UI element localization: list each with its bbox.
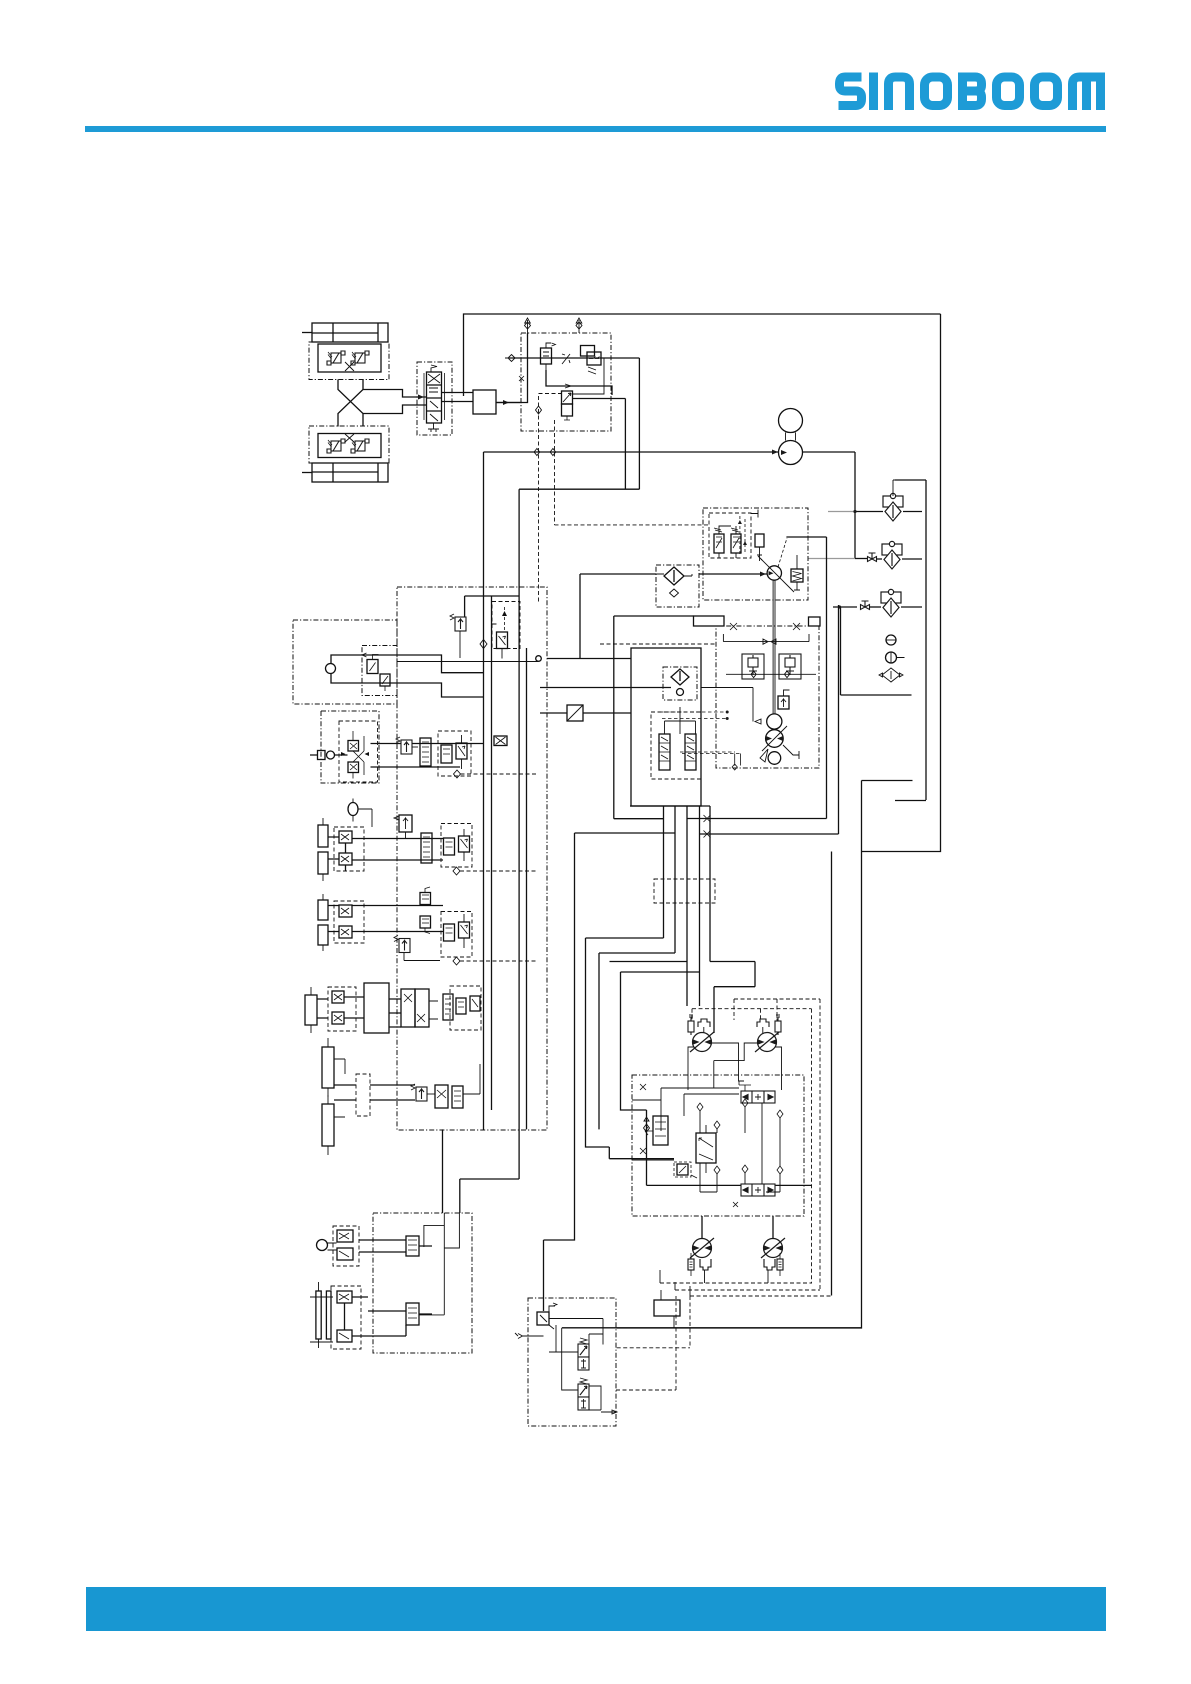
gate valve GV2 bbox=[861, 601, 870, 610]
jib wires L4 bbox=[328, 906, 443, 932]
drive valve DV1 pilot rails bbox=[424, 373, 445, 420]
crossover X1 bbox=[345, 362, 354, 371]
wire x861 vertical bbox=[617, 781, 913, 1329]
jib cyl L4 rods bbox=[318, 900, 328, 920]
pilot line dashed down A bbox=[538, 396, 540, 602]
strainer header bbox=[665, 707, 696, 734]
compensator valve CP1 bbox=[714, 534, 724, 553]
suction filter F4 box bbox=[663, 667, 697, 700]
wire top long line bbox=[464, 314, 941, 396]
wire DM feed bbox=[710, 962, 755, 1034]
solenoid valve SV1 bbox=[562, 391, 573, 404]
reducing valve RV1 bbox=[541, 348, 552, 364]
swing brake cyl bbox=[316, 1291, 321, 1339]
axle lock valves bbox=[348, 741, 359, 752]
pilot diamond bbox=[536, 406, 542, 414]
wire suction line bbox=[540, 687, 671, 689]
cylinder CY2 rod bbox=[302, 472, 312, 474]
platform wires L3 bbox=[328, 837, 443, 871]
wire return left A bbox=[614, 616, 694, 819]
arrow into valve bbox=[418, 395, 424, 400]
gauge G1 bbox=[886, 635, 896, 645]
header rule bbox=[85, 126, 1106, 132]
platform level gauge bbox=[348, 803, 358, 816]
brake solenoid BS2 bbox=[578, 1378, 589, 1410]
letter O bbox=[1035, 77, 1058, 106]
steer wires bbox=[331, 655, 484, 697]
wire to drive valve upper bbox=[363, 390, 427, 398]
PV inlet diamond bbox=[505, 355, 515, 362]
solenoid pilot dash bbox=[539, 393, 562, 395]
brake solenoid BS1 bbox=[578, 1338, 589, 1370]
relief TR1 bbox=[674, 1162, 691, 1177]
drive valve DV1 enclosure bbox=[417, 362, 452, 435]
pilot diamonds on pump line bbox=[534, 449, 556, 456]
drive motor DM3 bbox=[690, 1238, 714, 1258]
valve M2 bbox=[497, 632, 508, 649]
PV internal wire bbox=[546, 370, 612, 395]
cartridge C2 bbox=[775, 1015, 781, 1035]
accumulator block A bbox=[694, 616, 725, 626]
wire TP1 bbox=[540, 712, 631, 714]
return manifold five verticals bbox=[586, 806, 664, 938]
jib diamond bbox=[453, 957, 460, 965]
jib check B bbox=[420, 916, 431, 928]
pump shaft bbox=[773, 580, 775, 713]
PG check header bbox=[723, 634, 809, 644]
drive valve DV1 drain bbox=[428, 423, 439, 432]
brake relief BR1 bbox=[537, 1312, 549, 1325]
pump outlet wire bbox=[803, 452, 856, 559]
jib check A bbox=[420, 893, 431, 905]
wire return left D bbox=[598, 953, 600, 1129]
crossover X2 bbox=[345, 434, 354, 442]
motor circle MC1 bbox=[779, 409, 803, 433]
compensator sub-box bbox=[709, 513, 751, 558]
SINOBOOM logo bbox=[839, 73, 1101, 111]
main manifold enclosure MF bbox=[397, 587, 547, 1130]
valve M6 right box bbox=[450, 986, 481, 1030]
TM internal wires bbox=[661, 1088, 780, 1192]
wire pump drain B bbox=[700, 605, 839, 834]
steer sub-box bbox=[362, 646, 397, 696]
lift cyl L6a bbox=[322, 1047, 334, 1088]
swash actuator bbox=[755, 534, 764, 547]
filter F1 bbox=[883, 493, 903, 521]
cartridge C4 bbox=[777, 1259, 783, 1270]
platform stack bbox=[421, 833, 432, 863]
wire M1 feed bbox=[465, 596, 519, 617]
platform valve pair box bbox=[441, 824, 472, 868]
throttle arrow TH1 bbox=[562, 354, 570, 364]
brake wires bbox=[549, 1319, 603, 1353]
junction block K bbox=[654, 1300, 680, 1316]
pump PC2 variable bbox=[766, 730, 784, 748]
wire SV1 right then down bbox=[573, 399, 626, 490]
MP relief bbox=[791, 569, 803, 582]
valve M7b stack bbox=[452, 1086, 463, 1108]
telescope wires bbox=[317, 997, 401, 1027]
wire return left E bbox=[610, 961, 688, 963]
wire x926 bottom elbow bbox=[895, 800, 926, 802]
wire swing feeds bbox=[443, 1129, 520, 1213]
axle lock port bbox=[318, 751, 326, 760]
bus vertical pair bbox=[484, 452, 492, 1130]
PV left internal vertical bbox=[497, 333, 528, 403]
pump group enclosure PG bbox=[716, 626, 819, 768]
TM diamonds bbox=[697, 1099, 783, 1174]
valve M5b box bbox=[441, 912, 472, 958]
cartridge C3 bbox=[688, 1259, 694, 1270]
cartridge C1 bbox=[688, 1015, 694, 1035]
swing motor SM2 box bbox=[331, 1286, 361, 1349]
suction filter F4 bbox=[671, 669, 689, 685]
steer valve bbox=[367, 660, 378, 674]
relief M7 bbox=[411, 1084, 427, 1101]
jib relief cluster M4 bbox=[396, 737, 412, 754]
swing gauge bbox=[317, 1240, 328, 1251]
valve M4b box bbox=[438, 731, 471, 776]
gallery M3 bbox=[547, 658, 631, 660]
check on drop bbox=[644, 1117, 650, 1132]
return filter F4a box bbox=[656, 565, 699, 607]
PV main gallery bbox=[509, 358, 639, 489]
wire grey to filter F1 bbox=[828, 511, 855, 513]
filter F2 bbox=[882, 541, 902, 569]
letter O bbox=[925, 77, 948, 106]
pressure line into manifold bbox=[397, 661, 538, 663]
wire F2 feed grey bbox=[808, 558, 855, 560]
wire bus collector bbox=[519, 489, 639, 1179]
main control manifold enclosure PV bbox=[521, 333, 611, 431]
swing valve V3 bbox=[406, 1236, 419, 1256]
swing valve V4 bbox=[406, 1303, 419, 1325]
wire DV1 to junction block bbox=[442, 393, 474, 402]
drive motor DM1 bbox=[690, 1032, 714, 1052]
jib valve box L4 bbox=[334, 901, 364, 943]
wire to drive valve lower bbox=[363, 405, 427, 414]
drive valve DV1 spring bbox=[431, 365, 437, 372]
main pump enclosure MP bbox=[703, 508, 808, 600]
valve M2 sub-box bbox=[492, 602, 520, 649]
cylinder CY2 barrel bbox=[312, 463, 388, 482]
pump PC3 charge bbox=[768, 752, 781, 765]
shuttle SH1 bbox=[741, 1091, 775, 1103]
swing internal verticals bbox=[419, 1213, 459, 1315]
wires DM down bbox=[688, 1047, 782, 1090]
wire return left B bbox=[575, 832, 676, 834]
bus diamond bbox=[480, 640, 487, 649]
tophat T3 draw bbox=[700, 1259, 711, 1270]
brake drain bbox=[601, 1410, 617, 1414]
PG top junction crosses bbox=[730, 623, 800, 630]
axle lock inner box bbox=[339, 721, 378, 782]
wire return left F bbox=[621, 972, 813, 1185]
drive pilot dashed rails bbox=[692, 999, 820, 1009]
main pump circle bbox=[767, 566, 781, 580]
strainer S2 bbox=[685, 734, 696, 770]
junction cross B bbox=[704, 831, 711, 838]
wires DM lower up bbox=[702, 1216, 773, 1239]
junction cross A bbox=[704, 815, 711, 822]
junction block X1 bbox=[494, 736, 507, 746]
gate valve GV1 bbox=[868, 553, 877, 562]
divider valve TD1 bbox=[696, 1133, 716, 1163]
letter M bbox=[1073, 77, 1101, 110]
telescope cyl L5 bbox=[305, 995, 317, 1025]
BK internal drop bbox=[562, 1328, 578, 1390]
letter B bbox=[963, 73, 982, 111]
swash diagonal bbox=[761, 559, 794, 592]
brake pilot dashed right bbox=[616, 1389, 676, 1391]
diamond M4 bbox=[454, 770, 461, 778]
telescope valve box L5 bbox=[328, 987, 356, 1031]
return filter F4a bbox=[664, 567, 684, 585]
axle lock L2 enclosure bbox=[321, 711, 379, 783]
pump circle PC1 bbox=[779, 441, 803, 465]
telescope body rect bbox=[364, 983, 389, 1033]
arrow on JB1 line bbox=[503, 400, 509, 405]
counterbalance valve V2b bbox=[351, 439, 369, 453]
wire bottom long bbox=[562, 1327, 862, 1329]
drive valve DV1 body bbox=[427, 372, 442, 423]
footer bar bbox=[86, 1587, 1106, 1631]
filter F3 bbox=[881, 589, 901, 617]
wire F1 top loop bbox=[895, 480, 926, 800]
platform valve box L3 bbox=[334, 827, 364, 871]
pilot line dashed down B bbox=[555, 420, 710, 525]
PG gallery2 bbox=[726, 671, 816, 678]
wire tank return bbox=[841, 607, 912, 695]
wire return left C bbox=[586, 938, 675, 1159]
tank unit enclosure R1 bbox=[631, 648, 701, 806]
MP suction bbox=[699, 573, 767, 575]
pilot valve PVa bbox=[581, 346, 595, 357]
strainer group box bbox=[651, 712, 701, 779]
cylinder CY1 barrel bbox=[312, 323, 388, 342]
compensator valve CP2 bbox=[731, 534, 741, 553]
junction block JB1 bbox=[473, 390, 496, 414]
wire pump drain A bbox=[687, 537, 827, 819]
TM crosses bbox=[640, 1084, 646, 1154]
counter valve TL1 bbox=[653, 1116, 668, 1145]
compensator pilots bbox=[740, 516, 745, 554]
lift cyl L6b bbox=[322, 1104, 334, 1146]
test point TP1 bbox=[567, 705, 583, 721]
tophat T4 draw bbox=[764, 1259, 775, 1270]
letter N bbox=[889, 77, 910, 110]
counterbalance block V1 box bbox=[309, 342, 389, 380]
PG pilot dashes bbox=[660, 712, 740, 754]
brake valve enclosure BK bbox=[528, 1298, 616, 1426]
drive motor DM2 bbox=[755, 1032, 779, 1052]
valve M6b stack bbox=[443, 994, 453, 1020]
axle wires to manifold bbox=[371, 744, 484, 768]
PG suction bbox=[701, 688, 761, 725]
PV port arrows top bbox=[525, 318, 531, 333]
relief M5 bbox=[394, 936, 410, 953]
brake tophat T1 bbox=[698, 1019, 710, 1027]
wire case drain verticals right bbox=[811, 1009, 813, 1283]
bus vertical x526 bbox=[526, 648, 528, 1129]
arrow into pump bbox=[772, 450, 778, 455]
letter I bbox=[869, 73, 878, 111]
brake port arrows bbox=[515, 1333, 544, 1339]
drive motor DM4 bbox=[761, 1238, 785, 1258]
feedback dash bbox=[778, 538, 787, 567]
platform relief bbox=[399, 815, 412, 832]
PV junction x bbox=[519, 376, 524, 381]
breather B1 bbox=[879, 668, 903, 682]
wire F3 feed bbox=[833, 606, 857, 608]
steer gauge bbox=[326, 664, 336, 674]
gauge G2 bbox=[886, 652, 897, 663]
filter F1 check bbox=[893, 480, 895, 496]
shuttle SH2 bbox=[741, 1184, 775, 1196]
wire DM1-DM2 link bbox=[712, 1043, 759, 1088]
travel manifold enclosure TM bbox=[632, 1075, 804, 1216]
check valve CV1 bbox=[742, 654, 764, 679]
BK dashed out bbox=[617, 1296, 690, 1348]
letter S bbox=[839, 77, 862, 106]
PV right internal vertical bbox=[573, 358, 605, 394]
counterbalance valve V1b bbox=[351, 351, 369, 365]
accumulator block B bbox=[809, 617, 821, 626]
valve M6 pair bbox=[401, 989, 415, 1027]
steer unit L1 enclosure bbox=[293, 620, 397, 704]
lift valve box L6 bbox=[356, 1074, 370, 1116]
swing enclosure SW bbox=[373, 1213, 472, 1353]
letter O bbox=[997, 77, 1020, 106]
MP outlet bbox=[786, 536, 826, 538]
cylinder CY1 rod bbox=[302, 332, 312, 334]
relief M1 bbox=[450, 614, 466, 631]
check valve CV2 bbox=[779, 654, 801, 679]
counterbalance valve V2a bbox=[327, 439, 345, 453]
platform cyl L3 rods bbox=[318, 825, 328, 847]
wire long right vertical x940 bbox=[862, 314, 941, 852]
pump P1 supply line bbox=[484, 451, 779, 453]
relief RV2 bbox=[778, 696, 789, 709]
pass-through manifold PM bbox=[654, 879, 715, 903]
wire CY1 outputs bbox=[338, 380, 363, 427]
counterbalance valve V1a bbox=[327, 351, 345, 365]
brake tophat T2 bbox=[757, 1019, 769, 1027]
wire F4a feed bbox=[580, 574, 656, 659]
pilot dashed into PG bbox=[600, 643, 716, 645]
platform diamond bbox=[453, 867, 460, 875]
strainer S1 bbox=[659, 734, 670, 770]
wire bottom R1 bbox=[630, 805, 710, 807]
swing motor SM1 box bbox=[333, 1226, 359, 1266]
cylinder CY2 box bbox=[309, 426, 389, 463]
wire JB1 to PV box bbox=[496, 402, 522, 404]
wires DM lower down dashed bbox=[705, 1270, 769, 1283]
pump PC2 bbox=[767, 714, 782, 729]
